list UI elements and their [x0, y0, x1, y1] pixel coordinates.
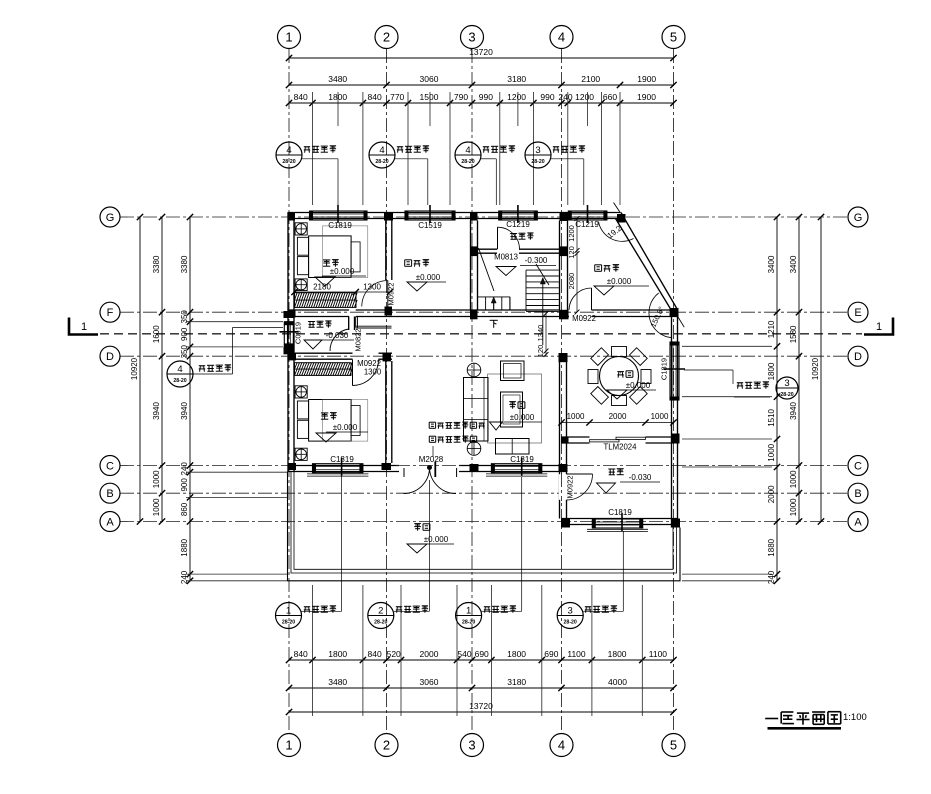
- kitchen door M0922 leaf and arc: [567, 473, 593, 475]
- window C1219 top left: [499, 211, 538, 220]
- svg-text:3380: 3380: [180, 255, 189, 273]
- svg-text:1: 1: [285, 738, 292, 753]
- svg-text:C: C: [106, 461, 114, 473]
- stair under-flight slope line: [479, 248, 495, 291]
- dining table round: [600, 357, 639, 396]
- svg-text:±0.000: ±0.000: [510, 413, 535, 422]
- svg-text:3: 3: [468, 738, 475, 753]
- stair lower flight arrow: [493, 299, 495, 309]
- left dimension chain spans: [161, 217, 163, 522]
- svg-text:M0822: M0822: [354, 329, 363, 352]
- grid bubbles bottom 1-5: [278, 734, 301, 757]
- svg-text:840: 840: [294, 649, 308, 659]
- sliding door TLM2024: [590, 440, 620, 442]
- svg-text:3940: 3940: [152, 402, 161, 420]
- bathroom door M0822 leaf and arc: [330, 329, 349, 351]
- svg-text:B: B: [106, 488, 113, 500]
- svg-text:1800: 1800: [608, 649, 627, 659]
- bedroom2 closet hatch: [295, 363, 352, 376]
- bathroom window center tick: [280, 331, 299, 333]
- bathroom right wall: [348, 317, 350, 331]
- dining/kitchen wall with TLM2024: [562, 436, 590, 438]
- svg-text:A: A: [854, 517, 862, 529]
- svg-text:3060: 3060: [420, 74, 439, 84]
- window C1219 top right: [568, 211, 607, 220]
- svg-text:±0.000: ±0.000: [424, 535, 449, 544]
- svg-text:1880: 1880: [767, 538, 776, 556]
- svg-text:660: 660: [603, 92, 617, 102]
- callout top 1 (4) with label: [276, 142, 302, 168]
- living room stool bottom: [467, 442, 481, 456]
- bottom extension lines: [312, 585, 314, 716]
- svg-text:1510: 1510: [767, 408, 776, 426]
- stair lower flight treads: [478, 296, 511, 298]
- kitchen south wall (grid A): [562, 518, 678, 520]
- wall grid 3 vertical: [470, 221, 472, 311]
- svg-text:3: 3: [468, 30, 475, 45]
- svg-text:1200: 1200: [507, 92, 526, 102]
- svg-text:±0.000: ±0.000: [626, 381, 651, 390]
- svg-text:M0813: M0813: [494, 253, 518, 262]
- top dimension chain fine: [289, 102, 674, 104]
- stair label xia (down): [490, 320, 498, 328]
- svg-text:28-20: 28-20: [374, 620, 387, 626]
- grid centerlines vertical 1-5: [288, 49, 290, 733]
- label mahjong room: [405, 260, 429, 267]
- utility room door M0922 leaf and arc: [591, 288, 593, 310]
- svg-text:1900: 1900: [637, 74, 656, 84]
- svg-text:1100: 1100: [567, 649, 586, 659]
- grid bubbles left: [100, 207, 120, 227]
- svg-text:C0919: C0919: [294, 322, 303, 344]
- svg-text:2080: 2080: [567, 273, 576, 290]
- entry door M2028 double leaves: [404, 468, 430, 494]
- bedroom1 nightstand bottom: [295, 279, 307, 291]
- svg-text:1200: 1200: [567, 225, 576, 242]
- svg-text:A: A: [106, 517, 114, 529]
- svg-text:28-20: 28-20: [780, 392, 793, 398]
- svg-text:-0.030: -0.030: [326, 331, 349, 340]
- svg-text:1880: 1880: [180, 538, 189, 556]
- living room sofa: [464, 378, 489, 442]
- svg-text:C: C: [854, 461, 862, 473]
- svg-text:10920: 10920: [130, 357, 139, 380]
- svg-text:±0.000: ±0.000: [607, 277, 632, 286]
- svg-text:240: 240: [180, 570, 189, 584]
- svg-text:2: 2: [383, 738, 390, 753]
- bedroom1 closet hatch: [295, 293, 357, 308]
- svg-text:770: 770: [390, 92, 404, 102]
- label courtyard: [414, 524, 430, 531]
- svg-text:1000: 1000: [567, 412, 585, 421]
- svg-text:3380: 3380: [152, 255, 161, 273]
- svg-text:3: 3: [784, 378, 789, 389]
- stair main flight treads: [526, 269, 559, 271]
- svg-text:4000: 4000: [608, 677, 627, 687]
- callout bottom 2 (2) with label: [368, 603, 394, 629]
- svg-text:1600: 1600: [152, 325, 161, 343]
- callout top 4 (3) with label: [525, 142, 551, 168]
- svg-text:28-20: 28-20: [461, 159, 474, 165]
- left extension lines: [186, 321, 283, 323]
- wall level D horizontal: [288, 352, 353, 354]
- svg-text:2: 2: [383, 30, 390, 45]
- bedroom1 door M0922 leaf and arc: [387, 281, 389, 307]
- svg-text:1000: 1000: [789, 498, 798, 516]
- svg-text:2: 2: [378, 606, 383, 617]
- bedroom2 nightstand bottom: [295, 448, 307, 460]
- svg-text:C1219: C1219: [506, 220, 530, 229]
- svg-text:B: B: [854, 488, 861, 500]
- svg-text:28-20: 28-20: [531, 159, 544, 165]
- living room tv bench: [496, 439, 530, 455]
- wall level E/F horizontal: [288, 309, 349, 311]
- svg-text:790: 790: [454, 92, 468, 102]
- svg-text:690: 690: [544, 649, 558, 659]
- svg-text:1500: 1500: [420, 92, 439, 102]
- bottom dimension chain total 13720: [289, 711, 674, 713]
- svg-text:860: 860: [180, 502, 189, 516]
- living room coffee table: [501, 392, 523, 427]
- svg-text:C1819: C1819: [608, 508, 632, 517]
- svg-text:240: 240: [180, 462, 189, 476]
- label entry door note: [429, 422, 485, 429]
- bedroom2 nightstand top: [295, 386, 307, 398]
- label bathroom: [308, 321, 331, 328]
- living room stool top: [467, 363, 481, 377]
- top dimension chain spans: [289, 84, 674, 86]
- svg-text:28-20: 28-20: [375, 159, 388, 165]
- window C1819 south-left: [313, 464, 363, 473]
- svg-text:1800: 1800: [507, 649, 526, 659]
- window C1519 top: [405, 211, 455, 220]
- svg-text:1300: 1300: [363, 283, 381, 292]
- svg-text:1: 1: [81, 321, 87, 333]
- left dimension total 10920: [139, 217, 141, 522]
- svg-text:-0.030: -0.030: [629, 473, 652, 482]
- svg-text:3180: 3180: [507, 677, 526, 687]
- svg-text:840: 840: [368, 92, 382, 102]
- svg-text:M0922: M0922: [572, 314, 596, 323]
- svg-text:M2028: M2028: [419, 455, 444, 464]
- svg-text:28-20: 28-20: [462, 620, 475, 626]
- wall grid 4 vertical lower (dining/kitchen west): [559, 362, 561, 519]
- svg-text:1210: 1210: [767, 320, 776, 338]
- bedroom1 nightstand top: [295, 223, 307, 235]
- svg-text:G: G: [854, 212, 863, 224]
- svg-text:28-20: 28-20: [564, 620, 577, 626]
- svg-text:2000: 2000: [767, 485, 776, 503]
- svg-text:28-20: 28-20: [173, 378, 186, 384]
- kitchen door M0922 opening: [559, 474, 567, 500]
- wall grid 4 vertical upper: [559, 221, 561, 311]
- niche walls near corridor: [355, 317, 357, 328]
- svg-text:1200: 1200: [575, 92, 594, 102]
- svg-text:3180: 3180: [507, 74, 526, 84]
- svg-text:4: 4: [558, 738, 565, 753]
- dining chairs: [612, 347, 627, 357]
- grid centerlines horizontal: [120, 216, 847, 218]
- exterior wall right (grid 5): [671, 311, 673, 528]
- interior dims at grid4 stair wall: [576, 219, 578, 313]
- svg-text:4: 4: [558, 30, 565, 45]
- svg-text:TLM2024: TLM2024: [604, 443, 638, 452]
- svg-text:C1819: C1819: [660, 358, 669, 380]
- stair break line: [536, 264, 549, 285]
- svg-text:1: 1: [285, 30, 292, 45]
- hall door M0922 1300 leaf and arc: [352, 360, 354, 386]
- svg-text:690: 690: [475, 649, 489, 659]
- svg-text:28-20: 28-20: [282, 620, 295, 626]
- svg-text:840: 840: [294, 92, 308, 102]
- label bedroom1: [323, 260, 339, 267]
- svg-text:990: 990: [479, 92, 493, 102]
- centerline repair at entry opening: [396, 465, 461, 467]
- wall level C horizontal (house south wall): [288, 465, 568, 467]
- top extension lines: [312, 92, 314, 205]
- svg-text:C1819: C1819: [328, 221, 352, 230]
- right dimension total 10920: [820, 217, 822, 522]
- svg-text:D: D: [106, 351, 114, 363]
- svg-text:240: 240: [767, 570, 776, 584]
- grid bubbles right: [848, 207, 868, 227]
- exterior wall top (grid G): [288, 212, 621, 214]
- window C1819 top: [310, 211, 368, 220]
- section line 1-1: [100, 333, 862, 335]
- callout right (3) with label: [684, 369, 733, 371]
- svg-text:2000: 2000: [420, 649, 439, 659]
- svg-text:4: 4: [379, 145, 384, 156]
- svg-text:E: E: [854, 307, 861, 319]
- diagonal wall top-right: [621, 213, 678, 311]
- svg-text:13720: 13720: [469, 701, 493, 711]
- callout top 2 (4) with label: [369, 142, 395, 168]
- label bedroom2: [321, 413, 337, 420]
- right dimension chain fine: [776, 217, 778, 581]
- grid bubbles top 1-5: [278, 26, 301, 49]
- svg-text:1: 1: [466, 606, 471, 617]
- svg-text:120: 120: [567, 246, 576, 259]
- svg-text:840: 840: [368, 649, 382, 659]
- callout bottom 4 (3) with label: [557, 603, 583, 629]
- window C0919 left wall: [284, 322, 293, 347]
- callout bottom 1 (1) with label: [276, 603, 302, 629]
- svg-text:4: 4: [177, 364, 182, 375]
- label utility room: [595, 265, 619, 272]
- svg-text:1800: 1800: [767, 362, 776, 380]
- svg-text:240: 240: [558, 92, 572, 102]
- svg-text:1000: 1000: [789, 470, 798, 488]
- svg-text:1100: 1100: [649, 649, 668, 659]
- svg-text:1800: 1800: [328, 649, 347, 659]
- svg-text:G: G: [106, 212, 115, 224]
- exterior wall left (grid 1): [287, 213, 289, 472]
- bottom dimension chain spans: [289, 687, 674, 689]
- svg-text:±0.000: ±0.000: [330, 267, 355, 276]
- svg-text:C1219: C1219: [575, 220, 599, 229]
- svg-text:1000: 1000: [152, 470, 161, 488]
- label storage: [510, 233, 533, 240]
- svg-text:4: 4: [286, 145, 291, 156]
- svg-text:520: 520: [387, 649, 401, 659]
- svg-text:1000: 1000: [152, 498, 161, 516]
- svg-text:5: 5: [670, 738, 677, 753]
- svg-text:C1819: C1819: [510, 455, 534, 464]
- svg-text:3480: 3480: [328, 677, 347, 687]
- svg-text:120: 120: [536, 345, 545, 358]
- svg-text:540: 540: [457, 649, 471, 659]
- svg-text:1: 1: [876, 321, 882, 333]
- bedroom1 closet dims 2180 1300: [295, 291, 391, 293]
- svg-text:10920: 10920: [811, 357, 820, 380]
- svg-text:F: F: [107, 307, 114, 319]
- svg-text:3400: 3400: [767, 255, 776, 273]
- diagonal wall extension stubs: [614, 203, 621, 214]
- svg-text:3940: 3940: [180, 402, 189, 420]
- svg-text:1900: 1900: [637, 92, 656, 102]
- svg-text:3: 3: [568, 606, 573, 617]
- svg-text:1:100: 1:100: [843, 712, 867, 723]
- left dimension chain fine: [189, 217, 191, 581]
- svg-text:4: 4: [465, 145, 470, 156]
- svg-text:M0922: M0922: [566, 476, 575, 499]
- svg-text:3: 3: [535, 145, 540, 156]
- svg-text:2100: 2100: [581, 74, 600, 84]
- label living room: [509, 402, 525, 409]
- svg-text:±0.000: ±0.000: [416, 273, 441, 282]
- angle label 150.8: [649, 293, 672, 338]
- svg-text:3480: 3480: [328, 74, 347, 84]
- storage/stair dividing wall: [478, 248, 498, 250]
- centerline repair at kitchen door opening: [561, 473, 563, 501]
- title yiceng pingmiantu 1:100: [765, 712, 841, 725]
- svg-text:C1519: C1519: [418, 221, 442, 230]
- right extension lines: [682, 345, 772, 347]
- living room armchair: [501, 361, 525, 381]
- storage door M0813 leaf and arc: [497, 227, 499, 249]
- svg-text:3060: 3060: [420, 677, 439, 687]
- window C1819 south-middle: [491, 464, 541, 473]
- svg-text:990: 990: [540, 92, 554, 102]
- svg-text:M0922: M0922: [387, 283, 396, 306]
- top dimension chain total 13720: [289, 57, 674, 59]
- entry opening M2028 white gap: [399, 465, 459, 474]
- svg-text:±0.000: ±0.000: [333, 423, 358, 432]
- bedroom2 bed: [309, 400, 352, 442]
- svg-text:3400: 3400: [789, 255, 798, 273]
- svg-text:1000: 1000: [767, 443, 776, 461]
- svg-text:3940: 3940: [789, 402, 798, 420]
- svg-text:2000: 2000: [609, 412, 627, 421]
- svg-text:5: 5: [670, 30, 677, 45]
- stair direction line with arrow: [542, 280, 544, 345]
- wall grid 2 vertical: [385, 221, 387, 281]
- bedroom1 bed: [309, 236, 352, 278]
- living room rug outline: [488, 374, 542, 443]
- window C1819 kitchen south: [592, 519, 642, 528]
- window C1819 dining right wall: [670, 342, 679, 400]
- svg-text:D: D: [854, 351, 862, 363]
- callout left (4) with label: [167, 361, 193, 387]
- bottom dimension chain fine: [289, 659, 674, 661]
- svg-text:1000: 1000: [651, 412, 669, 421]
- right dimension chain spans: [798, 217, 800, 522]
- angle label 19.2: [599, 222, 634, 242]
- label kitchen: [608, 469, 623, 475]
- svg-text:1300: 1300: [364, 368, 382, 377]
- svg-text:1: 1: [286, 606, 291, 617]
- svg-text:-0.300: -0.300: [525, 256, 548, 265]
- courtyard fence walls: [288, 472, 681, 581]
- svg-text:C1819: C1819: [330, 455, 354, 464]
- interior dims hall 1340 120: [545, 314, 547, 357]
- callout top 3 (4) with label: [455, 142, 481, 168]
- column blocks: [288, 212, 296, 221]
- dining dims 1000 2000 1000: [562, 422, 674, 424]
- svg-text:900: 900: [180, 327, 189, 341]
- callout bottom 3 (1) with label: [456, 603, 482, 629]
- svg-text:1580: 1580: [789, 325, 798, 343]
- svg-text:900: 900: [180, 478, 189, 492]
- svg-text:1340: 1340: [536, 325, 545, 342]
- label dining room: [617, 371, 633, 378]
- svg-text:28-20: 28-20: [282, 159, 295, 165]
